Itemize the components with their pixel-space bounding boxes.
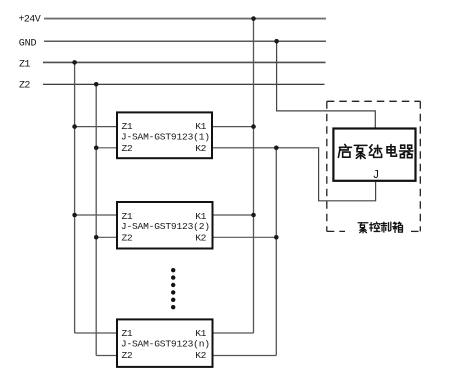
module Un J-SAM-GST9123(n) box	[117, 319, 213, 367]
junction node module1 K2	[274, 146, 279, 151]
wire module1 Z1 stub	[75, 126, 117, 128]
svg-text:+24V: +24V	[19, 15, 41, 26]
svg-text:J-SAM-GST9123(n): J-SAM-GST9123(n)	[121, 338, 210, 349]
svg-text:J-SAM-GST9123(2): J-SAM-GST9123(2)	[121, 221, 210, 232]
wire module-n Z1 stub	[75, 332, 117, 334]
junction node module2 K2	[274, 235, 279, 240]
module U2 J-SAM-GST9123(2) box	[117, 202, 213, 249]
wire K2 bus vertical	[275, 148, 277, 356]
svg-text:Z2: Z2	[122, 350, 133, 361]
bus +24V wire	[44, 18, 326, 20]
svg-text:Z2: Z2	[19, 80, 30, 91]
relay K start-pump relay box	[333, 129, 415, 181]
relay label 启泵继电器	[338, 144, 412, 158]
bus Z2 wire	[43, 83, 325, 85]
junction node Z2 bus / drop	[94, 82, 99, 87]
svg-text:K2: K2	[195, 233, 206, 244]
junction node GND bus / drop	[274, 39, 279, 44]
wire module2 Z2 stub	[96, 236, 117, 238]
wire Z2 vertical drop	[95, 84, 97, 355]
junction node module1 Z1	[72, 124, 77, 129]
svg-text:K2: K2	[195, 143, 206, 154]
ellipsis continuation dots	[171, 268, 175, 309]
bus Z1 wire	[43, 61, 326, 63]
svg-text:Z1: Z1	[19, 60, 30, 71]
junction node module2 Z2	[94, 235, 99, 240]
pump control cabinet label 泵控制箱	[358, 222, 402, 233]
module U1 J-SAM-GST9123(1) box	[117, 112, 212, 158]
wire +24V K1 vertical drop	[253, 19, 255, 333]
wire module1 Z2 stub	[96, 147, 117, 149]
wire GND to relay: down	[277, 41, 376, 128]
svg-text:J: J	[373, 169, 380, 182]
wire module-n K2 stub	[213, 355, 277, 357]
wire module2 K1 stub	[213, 214, 254, 216]
pump control cabinet dashed enclosure	[327, 101, 421, 231]
svg-text:K2: K2	[195, 350, 206, 361]
wire module1 K1 stub	[212, 126, 254, 128]
junction node module1 K1	[251, 124, 256, 129]
svg-text:J-SAM-GST9123(1): J-SAM-GST9123(1)	[121, 131, 210, 142]
junction node module1 Z2	[94, 146, 99, 151]
svg-text:Z2: Z2	[122, 143, 133, 154]
wire Z1 vertical drop	[74, 62, 76, 333]
junction node +24V bus / drop	[251, 16, 256, 21]
junction node module2 K1	[251, 213, 256, 218]
svg-text:Z2: Z2	[122, 233, 133, 244]
wire module1 K2 to relay	[212, 148, 376, 201]
junction node module2 Z1	[72, 213, 77, 218]
wire module-n Z2 stub	[96, 355, 117, 357]
wire module2 Z1 stub	[75, 214, 117, 216]
wire module-n K1 stub	[213, 332, 254, 334]
bus GND wire	[44, 40, 326, 42]
junction node Z1 bus / drop	[72, 60, 77, 65]
wire module2 K2 stub	[213, 236, 277, 238]
svg-text:GND: GND	[19, 38, 37, 49]
